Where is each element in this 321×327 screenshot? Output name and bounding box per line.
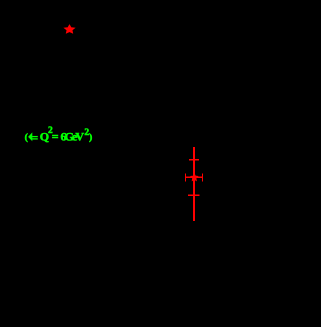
right cap bbox=[201, 173, 203, 181]
svg-text:(: ( bbox=[25, 132, 28, 143]
top inner tick bbox=[189, 159, 199, 161]
green label: left double arrow bbox=[28, 132, 38, 141]
red star marker (data point center) bbox=[191, 174, 198, 181]
horizontal error bar bbox=[185, 176, 203, 178]
red star marker (upper) bbox=[64, 25, 74, 33]
svg-text:): ) bbox=[89, 132, 92, 143]
svg-text:6GeV: 6GeV bbox=[61, 129, 85, 143]
vertical error bar line bbox=[193, 147, 195, 221]
red data point error bars bbox=[185, 147, 203, 221]
bottom inner cap bbox=[188, 194, 199, 196]
svg-text:=: = bbox=[52, 129, 59, 143]
left cap bbox=[185, 173, 187, 181]
